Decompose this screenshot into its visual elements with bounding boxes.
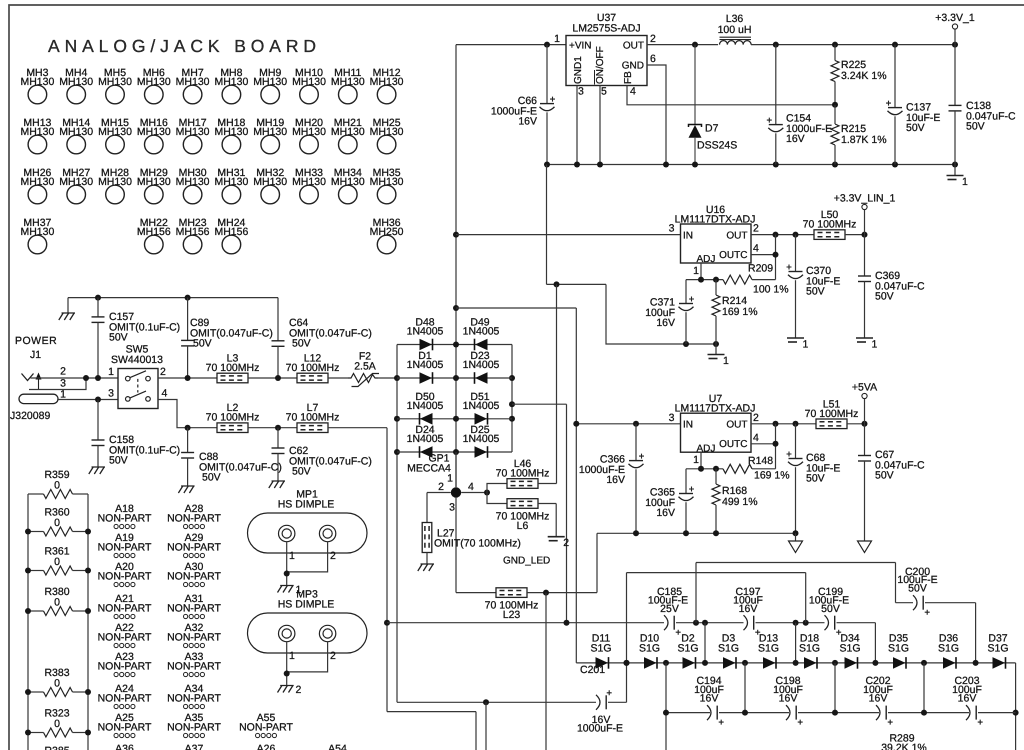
svg-text:A26: A26 [257,743,276,750]
junction [284,571,290,577]
wire R360 left lead [28,531,44,533]
mounting hole MH21 [331,117,365,154]
mounting hole MH35 [370,167,404,204]
wire cap rail [719,712,789,714]
wire U16 ADJ stub [700,263,702,280]
mounting hole MH9 [253,67,287,104]
capacitor C66 symbol [540,97,556,111]
capacitor C197 100uF 16V labels [733,586,763,615]
svg-text:MH156: MH156 [214,226,248,238]
svg-text:1: 1 [723,355,729,367]
svg-text:S1G: S1G [639,643,660,655]
junction [85,608,91,614]
svg-text:16V: 16V [958,693,977,705]
svg-text:4: 4 [162,388,168,400]
wire C366 bottom lead [635,469,637,533]
capacitor C68 10uF-E 50V [806,452,840,485]
wire MP1 pin2 [287,542,328,572]
capacitor C64 symbol [272,341,285,347]
svg-text:MH130: MH130 [137,126,171,138]
svg-text:50V: 50V [906,122,925,134]
wire LED rail (C185-C197) [676,622,744,624]
resistor R148 169 1% [748,455,790,482]
svg-text:+3.3V_1: +3.3V_1 [935,12,975,24]
svg-text:1N4005: 1N4005 [463,400,500,412]
svg-text:OUTC: OUTC [719,439,747,450]
svg-text:16V: 16V [786,133,805,145]
wire R361 left lead [28,570,44,572]
svg-text:IN: IN [683,420,693,431]
svg-text:GND1: GND1 [573,56,584,84]
inductor L27 symbol [422,523,432,553]
svg-text:50V: 50V [875,470,894,482]
capacitor C185 symbol [664,615,681,635]
svg-text:NON-PART: NON-PART [167,693,221,705]
capacitor C89 symbol [181,340,194,346]
part A21 NON-PART [98,593,152,619]
svg-text:4: 4 [753,243,759,255]
svg-text:16V: 16V [779,693,798,705]
diode D36 S1G [943,657,956,669]
svg-text:2.5A: 2.5A [354,361,376,373]
svg-text:2: 2 [160,366,166,378]
mounting hole MH19 [253,117,287,154]
diode D24 1N4005 [420,446,433,458]
inductor L3 ferrite bead [206,353,260,383]
svg-text:0: 0 [54,678,60,690]
mounting hole MH10 [292,67,326,104]
wire C366 top lead [635,424,637,461]
junction [85,568,91,574]
svg-text:A37: A37 [185,743,204,750]
label D51 [463,391,500,412]
junction L23 out / off-page [543,590,549,596]
inductor L2 ferrite bead [206,402,260,432]
wire ADJ node [686,279,723,281]
junction [973,660,979,666]
junction R225 top [832,42,838,48]
wire C64 top lead [277,298,279,341]
svg-text:S1G: S1G [590,643,611,655]
svg-text:1: 1 [693,454,699,466]
part A26 NON-PART [239,743,293,750]
diode D1 1N4005 [420,372,433,384]
junction [453,342,459,348]
junction FB divider [832,102,838,108]
wire to C200 [896,602,914,604]
junction [832,660,838,666]
svg-text:DSS24S: DSS24S [697,140,737,152]
junction [921,710,927,716]
svg-text:OUT: OUT [726,420,747,431]
svg-text:MH130: MH130 [370,126,404,138]
svg-text:4: 4 [468,481,474,493]
wire return off-page [475,712,477,750]
svg-text:16V: 16V [518,116,537,128]
inductor L6 ferrite bead [496,499,550,532]
label D48 [407,317,444,338]
wire to ground 1 [715,344,717,355]
wire U7 feed drop [575,308,577,663]
wire R359 left lead [28,493,44,495]
mounting hole MH11 [331,67,365,104]
resistor R359 symbol [44,490,73,499]
svg-text:L6: L6 [517,520,529,532]
wire C371 top lead [685,280,687,304]
junction +3.3V_LIN_1 node [862,232,868,238]
capacitor C66 1000uF-E 16V [491,95,537,128]
svg-text:OMIT(70 100MHz): OMIT(70 100MHz) [434,538,521,550]
svg-text:MH130: MH130 [331,176,365,188]
svg-text:MH130: MH130 [253,126,287,138]
svg-text:OUT: OUT [623,41,644,52]
junction [663,710,669,716]
wire C68 ground stub [795,533,797,541]
part A54 NON-PART [311,743,365,750]
wire R323 left lead [28,732,44,734]
svg-text:50V: 50V [109,455,128,467]
junction L46/L6 split [484,490,490,496]
wire R215 top lead [834,105,836,124]
junction [509,416,515,422]
diode D3 S1G [723,657,736,669]
svg-text:1N4005: 1N4005 [463,326,500,338]
svg-text:MH250: MH250 [370,226,404,238]
svg-text:2: 2 [563,537,569,549]
svg-text:MH130: MH130 [253,76,287,88]
wire L27 top lead [426,493,428,523]
wire U37 pin5 to ground rail [599,86,601,165]
svg-text:MH130: MH130 [59,126,93,138]
svg-text:0: 0 [54,718,60,730]
wire C88 top lead [187,428,189,453]
svg-text:NON-PART: NON-PART [98,513,152,525]
resistor R225 3.24K 1% [841,59,887,82]
mounting hole MH34 [331,167,365,204]
capacitor C68 symbol [787,452,804,466]
wire C154 top lead [775,45,777,125]
svg-text:MH130: MH130 [370,176,404,188]
wire bridge row right [456,344,512,346]
wire C369 top lead [864,235,866,276]
wire bridge output drop [566,404,568,623]
junction [892,162,898,168]
svg-text:D7: D7 [705,123,719,135]
mounting hole MH3 [20,67,54,104]
svg-text:100 1%: 100 1% [753,284,789,296]
wire U16 OUT [751,234,814,236]
label D1 [407,350,444,371]
junction C157/C158 column [95,375,101,381]
junction [921,660,927,666]
svg-text:HS DIMPLE: HS DIMPLE [278,499,335,511]
svg-text:3: 3 [108,388,114,400]
diode D49 1N4005 [475,339,488,351]
capacitor C202 100uF 16V labels [863,675,893,705]
svg-text:LM1117DTX-ADJ: LM1117DTX-ADJ [675,214,756,226]
wire raw DC rail (vertical) [455,45,457,487]
mounting hole MH12 [370,67,404,104]
capacitor C185 100uF-E 25V labels [648,586,688,615]
junction D7 top [692,42,698,48]
part A34 NON-PART [167,683,221,709]
junction L46 return riser [554,281,560,287]
wire U7 OUTC [751,443,776,445]
resistor R225 symbol [831,61,839,82]
mounting hole MH28 [98,167,132,204]
junction OUTC [773,441,779,447]
junction riser to diode row [793,620,799,626]
capacitor C157 symbol [92,317,105,323]
junction riser to top loop [693,620,699,626]
svg-text:LM2575S-ADJ: LM2575S-ADJ [572,23,640,35]
capacitor C194 100uF 16V labels [694,675,724,705]
junction [25,608,31,614]
wire MP3 pin2 [287,642,328,672]
svg-text:16V: 16V [606,474,625,486]
wire MP3 pin1 [286,642,288,686]
svg-text:0: 0 [54,480,60,492]
op-amp U16 LM1117DTX-ADJ regulator body [669,204,759,277]
svg-text:R385: R385 [44,745,69,750]
junction C371 bottom [683,341,689,347]
svg-text:GND: GND [622,61,644,72]
capacitor C138 0.047uF-C 50V [966,100,1016,133]
wire R361 right lead [73,570,89,572]
ground (below C158) [89,467,105,474]
diode D23 1N4005 [475,372,488,384]
wire to L6 [487,493,507,504]
svg-text:100 uH: 100 uH [718,24,752,36]
wire riser to cap rail [744,663,746,713]
wire SW5 pin2 out [158,377,217,379]
capacitor C67 symbol [858,456,871,462]
mounting hole MH14 [59,117,93,154]
wire cap rail [666,712,710,714]
junction [952,162,958,168]
svg-text:0: 0 [54,517,60,529]
junction C137 top [892,42,898,48]
label D13 [758,633,779,655]
junction raw rail / U7 feed [453,305,459,311]
wire +3.3V_LIN_1 stub [864,210,866,235]
svg-text:MH130: MH130 [98,76,132,88]
mounting hole MH6 [137,67,171,104]
junction diode row [624,660,630,666]
svg-text:NON-PART: NON-PART [167,571,221,583]
svg-text:NON-PART: NON-PART [167,722,221,734]
junction [683,530,689,536]
capacitor C370 symbol [787,265,804,279]
wire +5VA stub [864,399,866,424]
wire C138 bottom lead [954,111,956,165]
mounting hole MH29 [137,167,171,204]
wire C137 top lead [894,45,896,108]
svg-text:MH130: MH130 [214,126,248,138]
wire J1 switch contact [29,378,86,390]
mounting hole MH33 [292,167,326,204]
ground -1 (below C370) [787,338,809,351]
junction [574,162,580,168]
svg-text:2: 2 [753,223,759,235]
svg-text:MH130: MH130 [20,126,54,138]
svg-text:FB: FB [623,71,634,84]
wire riser to cap rail [665,663,667,713]
junction [663,660,669,666]
svg-text:ANALOG/JACK BOARD: ANALOG/JACK BOARD [48,36,321,56]
wire ADJ node [686,468,723,470]
svg-text:ADJ: ADJ [697,254,716,265]
diode D48 1N4005 [420,339,433,351]
svg-text:1: 1 [289,550,295,562]
capacitor C138 symbol [949,105,962,111]
wire C68 bottom lead [795,467,797,533]
wire LED diode row [576,662,1015,664]
capacitor C89 OMIT(0.047uF-C) 50V [190,317,273,350]
junction C157 top [95,295,101,301]
capacitor C201 1000uF-E 16V labels [577,664,623,735]
wire riser to C200 loop [695,563,697,623]
capacitor C366 1000uF-E 16V [579,454,625,487]
wire OUTC tie down to R148 [775,424,777,469]
capacitor C64 OMIT(0.047uF-C) 50V [289,317,372,350]
label D50 [407,391,444,412]
part A29 NON-PART [167,532,221,558]
label D34 [839,633,860,655]
svg-text:MH130: MH130 [292,76,326,88]
label D10 [639,633,660,655]
svg-text:1N4005: 1N4005 [407,433,444,445]
junction [394,449,400,455]
inductor L12 ferrite bead [286,353,340,383]
diode D25 1N4005 [475,446,488,458]
wire U37 ground drop [546,165,548,285]
svg-text:R148: R148 [748,455,773,467]
junction [25,689,31,695]
capacitor C199 symbol [825,615,842,635]
svg-text:25V: 25V [660,603,679,615]
capacitor C62 symbol [272,448,285,454]
wire C365 bottom lead [685,502,687,533]
svg-text:S1G: S1G [758,643,779,655]
svg-text:NON-PART: NON-PART [98,632,152,644]
svg-text:SW440013: SW440013 [111,354,163,366]
wire C89 top lead [187,298,189,341]
op-amp U37 LM2575S-ADJ regulator body [554,12,656,98]
svg-text:50V: 50V [908,583,927,595]
wire bridge row right [456,377,512,379]
wire L23 output [527,592,597,594]
capacitor C370 10uF-E 50V [806,265,840,298]
svg-text:1N4005: 1N4005 [463,433,500,445]
svg-text:MH130: MH130 [331,126,365,138]
capacitor C203 symbol [966,705,983,725]
svg-text:70 100MHz: 70 100MHz [805,408,859,420]
junction [624,660,630,666]
svg-text:0: 0 [54,556,60,568]
diode D13 S1G [763,657,776,669]
capacitor C88 symbol [181,453,194,459]
svg-text:50V: 50V [292,466,311,478]
svg-text:ADJ: ADJ [697,443,716,454]
junction [544,162,550,168]
wire C201 branch [397,701,596,703]
wire ground run down to C371/R214 [606,284,716,344]
mount MP3 HS DIMPLE [248,589,368,663]
wire R-chain right rail [87,494,89,750]
wire U37 pin6 GND [647,65,666,165]
svg-text:S1G: S1G [888,643,909,655]
wire C200 loop drop [895,563,897,603]
wire riser C197-C199 to row [795,623,797,663]
part A18 NON-PART [98,503,152,529]
mounting hole MH15 [98,117,132,154]
label D23 [463,350,500,371]
wire J1 tip to SW5 pin1 [31,377,119,379]
svg-text:MH130: MH130 [370,76,404,88]
svg-text:POWER: POWER [15,335,57,347]
inductor L7 ferrite bead [286,402,340,432]
capacitor C369 symbol [858,276,871,282]
capacitor C366 symbol [629,454,645,468]
resistor R214 symbol [712,295,720,316]
wire C201 to inner loop [608,701,627,703]
wire SW5 pin4 out [158,400,217,428]
inductor L50 ferrite bead [803,209,857,239]
svg-text:S1G: S1G [987,643,1008,655]
svg-text:6: 6 [650,53,656,65]
svg-text:50V: 50V [875,291,894,303]
ground (below L27) [418,564,434,571]
mounting hole MH22 [137,217,171,254]
junction bridge output tap [564,620,570,626]
svg-text:169 1%: 169 1% [722,306,758,318]
resistor R214 169 1% [722,295,758,318]
part A55 NON-PART [239,712,293,738]
wire C365 top lead [685,469,687,494]
svg-text:50V: 50V [292,338,311,350]
capacitor C365 symbol [679,487,695,501]
junction OUT/OUTC tie [773,421,779,427]
capacitor C154 symbol [767,118,784,132]
diode D7 DSS24S [689,45,738,165]
junction C89 top [185,295,191,301]
resistor R215 symbol [831,124,839,145]
mounting hole MH31 [214,167,248,204]
wire C67 bottom lead [864,461,866,541]
wire C369 bottom lead [864,282,866,339]
part A30 NON-PART [167,561,221,587]
svg-text:2: 2 [60,366,66,378]
part A37 NON-PART [167,743,221,750]
wire C138 top lead [954,45,956,106]
junction [713,530,719,536]
junction ADJ/R214 [713,277,719,283]
junction ADJ/R168 [713,466,719,472]
connector J1 POWER jack J320089 [10,335,66,422]
junction [85,529,91,535]
svg-text:MH130: MH130 [292,176,326,188]
capacitor C369 0.047uF-C 50V [875,270,925,303]
junction [25,529,31,535]
svg-text:C201: C201 [580,664,605,676]
capacitor C154 1000uF-E 16V [786,113,832,146]
resistor R359 0 [44,469,69,492]
svg-text:MH130: MH130 [137,176,171,188]
ground (below MP1) [278,586,294,593]
wire C66 top lead [546,45,548,104]
wire cap rail [888,712,969,714]
